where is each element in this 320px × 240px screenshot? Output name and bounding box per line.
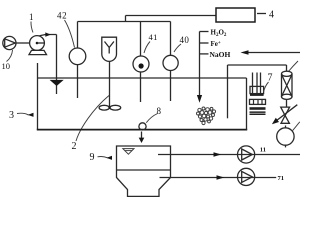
label 9 bbox=[90, 152, 113, 163]
settler 9 bbox=[117, 146, 171, 196]
label 10 bbox=[2, 50, 13, 71]
impeller blades bbox=[99, 105, 121, 110]
svg-text:42: 42 bbox=[57, 11, 67, 21]
svg-text:10: 10 bbox=[2, 61, 11, 71]
electrode stack 7 : plate bands bbox=[250, 94, 266, 115]
NaOH feed arrow line bbox=[241, 50, 301, 54]
outlet pump 11 bbox=[238, 146, 266, 163]
label 40 bbox=[174, 35, 189, 52]
svg-text:NaOH: NaOH bbox=[210, 50, 231, 59]
pump 1 bbox=[29, 36, 47, 55]
tank 3 left wall bbox=[37, 63, 39, 130]
svg-text:9: 9 bbox=[90, 152, 95, 163]
tank 3 level line bbox=[38, 77, 247, 79]
label 42 bbox=[57, 11, 75, 48]
junction to line B bbox=[125, 16, 127, 22]
header line A bbox=[78, 21, 171, 23]
tank 3 bottom bbox=[37, 129, 247, 131]
dosing vessel 41 bbox=[133, 22, 149, 103]
clear water outlet line 11 bbox=[158, 152, 300, 157]
box 4 bbox=[216, 8, 255, 22]
label 1 bbox=[29, 12, 34, 33]
dosing vessel 42 bbox=[69, 22, 86, 99]
sludge outlet line 71 bbox=[160, 175, 277, 180]
label 3 bbox=[9, 110, 34, 121]
pipe pump1 discharge with arrow bbox=[40, 32, 57, 94]
svg-text:41: 41 bbox=[149, 32, 158, 42]
electrode stack 7 : upper box bbox=[250, 86, 264, 93]
tank 3 right wall bbox=[246, 78, 248, 130]
control valve with arrow bbox=[272, 100, 297, 125]
label 2 bbox=[72, 96, 110, 153]
down arrow to settler bbox=[139, 132, 145, 144]
rotameter bbox=[282, 71, 293, 99]
tank outlet 8 bbox=[139, 106, 162, 130]
dosing vessel 40 bbox=[163, 22, 178, 102]
stirrer motor with Y bbox=[102, 37, 117, 61]
label 4 bbox=[257, 10, 274, 21]
svg-text:4: 4 bbox=[269, 10, 274, 21]
recirculation pump bbox=[277, 122, 300, 148]
svg-text:1: 1 bbox=[29, 12, 34, 22]
svg-text:40: 40 bbox=[180, 35, 190, 45]
floc cluster bbox=[197, 107, 216, 125]
return pipe bbox=[228, 61, 299, 118]
settler level mark bbox=[123, 149, 134, 155]
electrode stack 7 : leads bbox=[253, 73, 261, 94]
svg-text:71: 71 bbox=[278, 175, 285, 182]
sludge pump bbox=[238, 168, 285, 185]
svg-text:3: 3 bbox=[9, 110, 14, 121]
stirrer shaft bbox=[109, 61, 111, 106]
chemical feed line bbox=[197, 32, 209, 103]
svg-text:2: 2 bbox=[72, 141, 77, 152]
inlet level symbol (hatched wedge) bbox=[50, 80, 64, 86]
wire pump10 to pump1 bbox=[16, 42, 30, 44]
pump 10 bbox=[3, 36, 16, 49]
svg-text:11: 11 bbox=[260, 147, 266, 154]
label 7 bbox=[264, 73, 273, 93]
label 41 bbox=[144, 32, 158, 53]
line B to box 4 bbox=[126, 15, 217, 17]
svg-text:8: 8 bbox=[157, 106, 162, 116]
